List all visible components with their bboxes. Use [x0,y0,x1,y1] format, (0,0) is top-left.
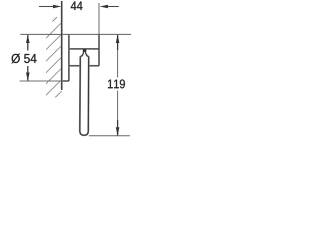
extension line front face above product [98,3,100,34]
dim 119 line upper segment [117,35,119,50]
extension line flange bottom left [20,80,62,82]
dim D54 text [12,54,37,64]
dim 44 right tail [107,6,119,8]
dim D54 up arrowhead [26,35,30,43]
dim D54 line lower segment [27,66,29,81]
rod (roll-holder bar, side view) [80,56,89,135]
wall hatching [45,17,62,108]
extension line top long [20,33,131,35]
dim D54 line upper segment [27,35,29,51]
pivot knob on rod top [83,49,87,55]
rod shoulders [80,54,88,57]
extension line rod bottom [89,135,130,137]
dim 119 up arrowhead [116,35,120,43]
dim D54 down arrowhead [26,73,30,81]
dim 44 left tail [39,6,54,8]
dim 44 left arrowhead [53,5,61,9]
dim 119 down arrowhead [116,127,120,135]
dim 44 text [71,2,83,11]
dim 119 line lower segment [117,91,119,121]
wall surface line [61,1,63,90]
holder arm body (side view) [69,34,99,66]
flange plate (side view) [62,34,69,81]
dim 119 text [108,79,125,88]
dim 44 right arrowhead [100,5,108,9]
